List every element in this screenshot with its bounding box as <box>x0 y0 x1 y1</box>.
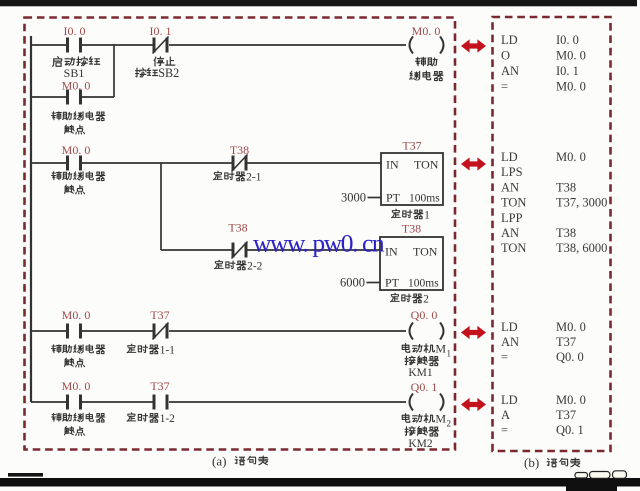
svg-text:www. pw0. cn: www. pw0. cn <box>253 229 385 258</box>
svg-text:M0. 0: M0. 0 <box>62 79 91 93</box>
svg-text:AN: AN <box>501 335 519 349</box>
svg-text:Q0. 0: Q0. 0 <box>556 350 584 364</box>
svg-text:T38: T38 <box>402 222 421 236</box>
svg-text:T38: T38 <box>230 143 249 157</box>
svg-text:M0. 0: M0. 0 <box>556 393 586 407</box>
svg-text:LPP: LPP <box>501 211 523 225</box>
svg-text:M0. 0: M0. 0 <box>62 308 91 322</box>
svg-text:T38: T38 <box>228 221 247 235</box>
svg-text:I0. 1: I0. 1 <box>150 24 172 38</box>
svg-text:1: 1 <box>447 349 452 359</box>
svg-text:6000: 6000 <box>340 276 365 290</box>
svg-text:=: = <box>501 350 508 364</box>
svg-text:Q0. 1: Q0. 1 <box>556 423 584 437</box>
svg-text:(a): (a) <box>212 454 226 469</box>
svg-text:(b): (b) <box>524 455 539 470</box>
svg-text:M0. 0: M0. 0 <box>556 150 586 164</box>
svg-text:LD: LD <box>501 393 518 407</box>
svg-text:100ms: 100ms <box>409 193 440 205</box>
svg-text:TON: TON <box>501 196 526 210</box>
svg-text:M0. 0: M0. 0 <box>62 143 91 157</box>
svg-text:M0. 0: M0. 0 <box>556 320 586 334</box>
svg-text:LD: LD <box>501 33 518 47</box>
svg-text:AN: AN <box>501 226 519 240</box>
svg-text:T38: T38 <box>556 226 576 240</box>
svg-text:Q0. 0: Q0. 0 <box>411 308 438 322</box>
svg-text:M0. 0: M0. 0 <box>412 24 441 38</box>
svg-text:I0. 0: I0. 0 <box>64 24 86 38</box>
svg-text:TON: TON <box>501 241 526 255</box>
svg-text:1: 1 <box>424 209 430 221</box>
svg-text:M: M <box>435 412 446 426</box>
svg-text:T37: T37 <box>150 308 169 322</box>
svg-text:SB1: SB1 <box>64 66 85 80</box>
svg-text:IN: IN <box>385 245 398 259</box>
svg-text:3000: 3000 <box>341 191 366 205</box>
svg-text:AN: AN <box>501 180 519 194</box>
svg-text:T37: T37 <box>556 408 576 422</box>
svg-text:I0. 1: I0. 1 <box>556 64 579 78</box>
svg-text:PT: PT <box>386 191 401 205</box>
svg-text:T38: T38 <box>556 180 576 194</box>
svg-text:IN: IN <box>386 158 399 172</box>
svg-text:2: 2 <box>423 293 429 305</box>
svg-text:T37: T37 <box>150 379 169 393</box>
svg-text:1-1: 1-1 <box>160 344 176 356</box>
svg-text:T37: T37 <box>402 139 421 153</box>
svg-text:2: 2 <box>447 419 452 429</box>
svg-text:SB2: SB2 <box>158 66 179 80</box>
svg-text:100ms: 100ms <box>408 278 439 290</box>
svg-text:Q0. 1: Q0. 1 <box>411 380 438 394</box>
svg-text:TON: TON <box>414 158 439 172</box>
svg-text:O: O <box>501 49 510 63</box>
svg-text:KM2: KM2 <box>408 438 433 450</box>
svg-text:2-1: 2-1 <box>246 171 262 183</box>
svg-text:TON: TON <box>413 245 438 259</box>
svg-text:LPS: LPS <box>501 165 523 179</box>
svg-text:KM1: KM1 <box>408 367 433 379</box>
svg-text:M: M <box>435 342 446 356</box>
svg-text:=: = <box>501 80 508 94</box>
svg-text:AN: AN <box>501 64 519 78</box>
svg-text:T37: T37 <box>556 335 576 349</box>
svg-text:PT: PT <box>385 276 400 290</box>
svg-text:T37, 3000: T37, 3000 <box>556 196 607 210</box>
svg-text:M0. 0: M0. 0 <box>556 49 586 63</box>
svg-text:M0. 0: M0. 0 <box>556 80 586 94</box>
svg-text:LD: LD <box>501 320 518 334</box>
svg-text:T38, 6000: T38, 6000 <box>556 241 607 255</box>
svg-text:=: = <box>501 423 508 437</box>
svg-text:2-2: 2-2 <box>247 260 263 272</box>
svg-text:M0. 0: M0. 0 <box>62 379 91 393</box>
svg-text:A: A <box>501 408 510 422</box>
svg-text:I0. 0: I0. 0 <box>556 33 579 47</box>
svg-text:1-2: 1-2 <box>160 413 176 425</box>
svg-text:LD: LD <box>501 150 518 164</box>
